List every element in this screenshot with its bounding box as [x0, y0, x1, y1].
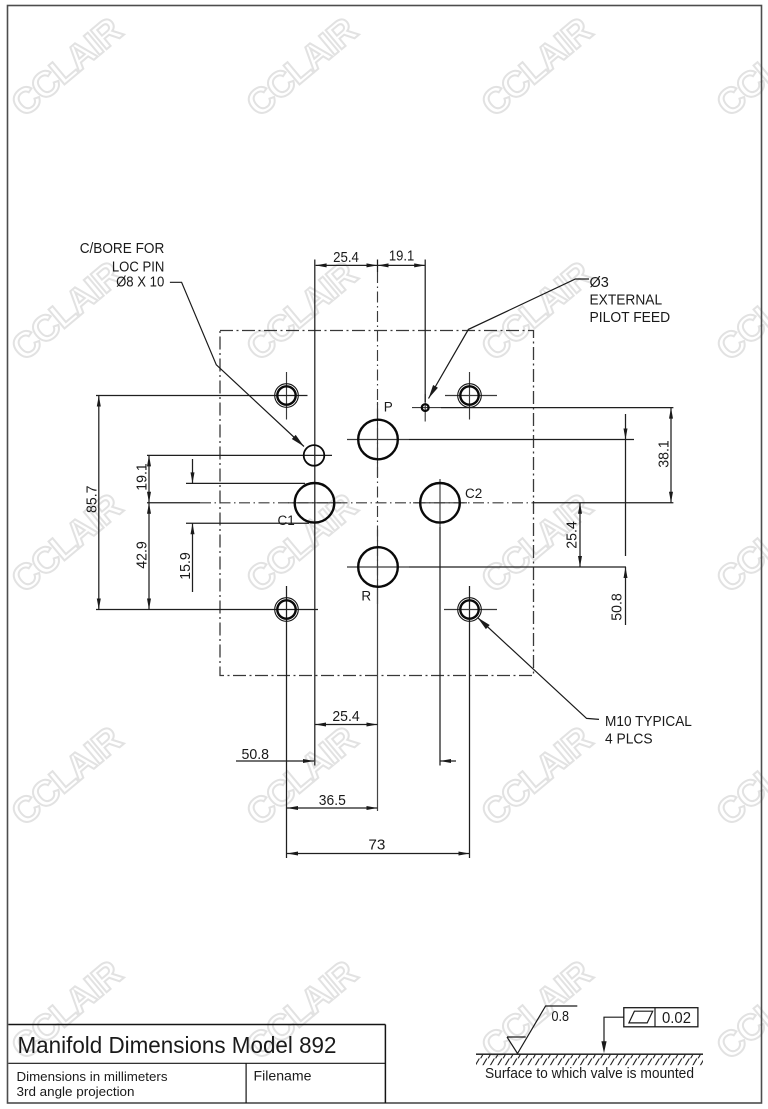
svg-text:25.4: 25.4	[564, 521, 581, 549]
dimension 85.7 left	[83, 396, 101, 610]
svg-text:C1: C1	[278, 513, 295, 528]
svg-text:73: 73	[368, 836, 385, 853]
centerline bottom-left mounting hole	[96, 586, 318, 858]
svg-text:C2: C2	[465, 486, 482, 501]
svg-text:EXTERNAL: EXTERNAL	[590, 292, 663, 308]
svg-text:15.9: 15.9	[177, 552, 194, 580]
note C/BORE FOR LOC PIN with leader	[80, 241, 304, 447]
svg-text:0.02: 0.02	[662, 1010, 691, 1027]
mounting hole top-left M10	[275, 384, 299, 408]
svg-text:M10 TYPICAL: M10 TYPICAL	[605, 714, 692, 730]
svg-text:3rd angle projection: 3rd angle projection	[17, 1085, 135, 1099]
svg-text:50.8: 50.8	[242, 746, 270, 763]
centerline top-left mounting hole	[96, 372, 308, 420]
dimension 19.1 top	[378, 248, 426, 268]
port R	[358, 547, 398, 603]
centerline horizontal loc pin	[147, 454, 332, 456]
dimension 50.8 bottom	[236, 746, 456, 763]
svg-text:0.8: 0.8	[552, 1009, 570, 1025]
centerline horizontal C1-C2	[147, 502, 673, 504]
svg-text:38.1: 38.1	[656, 440, 673, 468]
svg-text:19.1: 19.1	[134, 463, 151, 491]
note M10 TYPICAL 4 PLCS with leader	[478, 618, 692, 748]
extension line vertical through loc pin / C1	[314, 260, 316, 766]
svg-text:Ø8 X 10: Ø8 X 10	[116, 275, 164, 291]
dimension 25.4 top	[316, 249, 426, 402]
centerline horizontal P	[347, 439, 634, 441]
c/bore hole for loc pin	[304, 445, 325, 466]
port C2	[420, 483, 482, 523]
port P	[358, 400, 398, 460]
title block	[8, 1025, 385, 1104]
svg-text:Surface to which valve is moun: Surface to which valve is mounted	[485, 1065, 694, 1082]
mounting surface line with hatching	[476, 1054, 703, 1082]
svg-text:4 PLCS: 4 PLCS	[605, 732, 653, 748]
mounting hole bottom-right M10	[458, 598, 482, 622]
surface finish symbol 0.8	[507, 1006, 577, 1054]
dimension 42.9 left	[134, 503, 152, 610]
svg-text:19.1: 19.1	[389, 248, 414, 265]
mounting hole bottom-left M10	[275, 598, 299, 622]
dimension 73 bottom	[287, 836, 470, 855]
svg-text:R: R	[361, 589, 371, 604]
svg-text:50.8: 50.8	[609, 593, 626, 621]
svg-text:Ø3: Ø3	[590, 275, 609, 291]
centerline horizontal pilot feed	[412, 407, 673, 409]
dimension 15.9 left	[177, 459, 309, 592]
dimension 19.1 left	[134, 455, 152, 609]
dimension 36.5 bottom	[287, 792, 378, 810]
svg-text:Manifold Dimensions Model 892: Manifold Dimensions Model 892	[18, 1032, 337, 1058]
note 03 EXTERNAL PILOT FEED with leader	[429, 275, 671, 399]
extension line vertical through C2	[439, 479, 441, 766]
dimension 25.4 bottom	[315, 708, 378, 727]
svg-text:25.4: 25.4	[332, 708, 359, 725]
svg-text:PILOT FEED: PILOT FEED	[590, 310, 671, 326]
dimension 25.4 right	[564, 503, 583, 567]
centerline vertical pilot feed	[424, 394, 426, 422]
pilot feed hole	[422, 404, 429, 411]
centerline top-right mounting hole	[445, 372, 497, 420]
svg-text:85.7: 85.7	[83, 485, 100, 513]
dimension 50.8 right	[609, 414, 628, 625]
mounting hole top-right M10	[458, 384, 482, 408]
svg-text:36.5: 36.5	[319, 792, 346, 809]
svg-text:42.9: 42.9	[134, 541, 151, 569]
svg-text:P: P	[384, 400, 393, 415]
centerline vertical P-R	[377, 260, 379, 812]
svg-text:C/BORE FOR: C/BORE FOR	[80, 241, 165, 257]
svg-text:Filename: Filename	[254, 1069, 312, 1084]
svg-text:LOC PIN: LOC PIN	[112, 259, 164, 275]
flatness callout 0.02	[601, 1008, 697, 1053]
svg-text:Dimensions in millimeters: Dimensions in millimeters	[17, 1070, 168, 1084]
centerline horizontal R	[347, 566, 626, 568]
centerline bottom-right mounting hole	[444, 586, 497, 858]
dimension 38.1 right	[656, 408, 674, 503]
svg-text:25.4: 25.4	[333, 249, 359, 266]
manifold footprint outline (phantom rectangle)	[220, 331, 534, 676]
port C1	[278, 483, 335, 528]
